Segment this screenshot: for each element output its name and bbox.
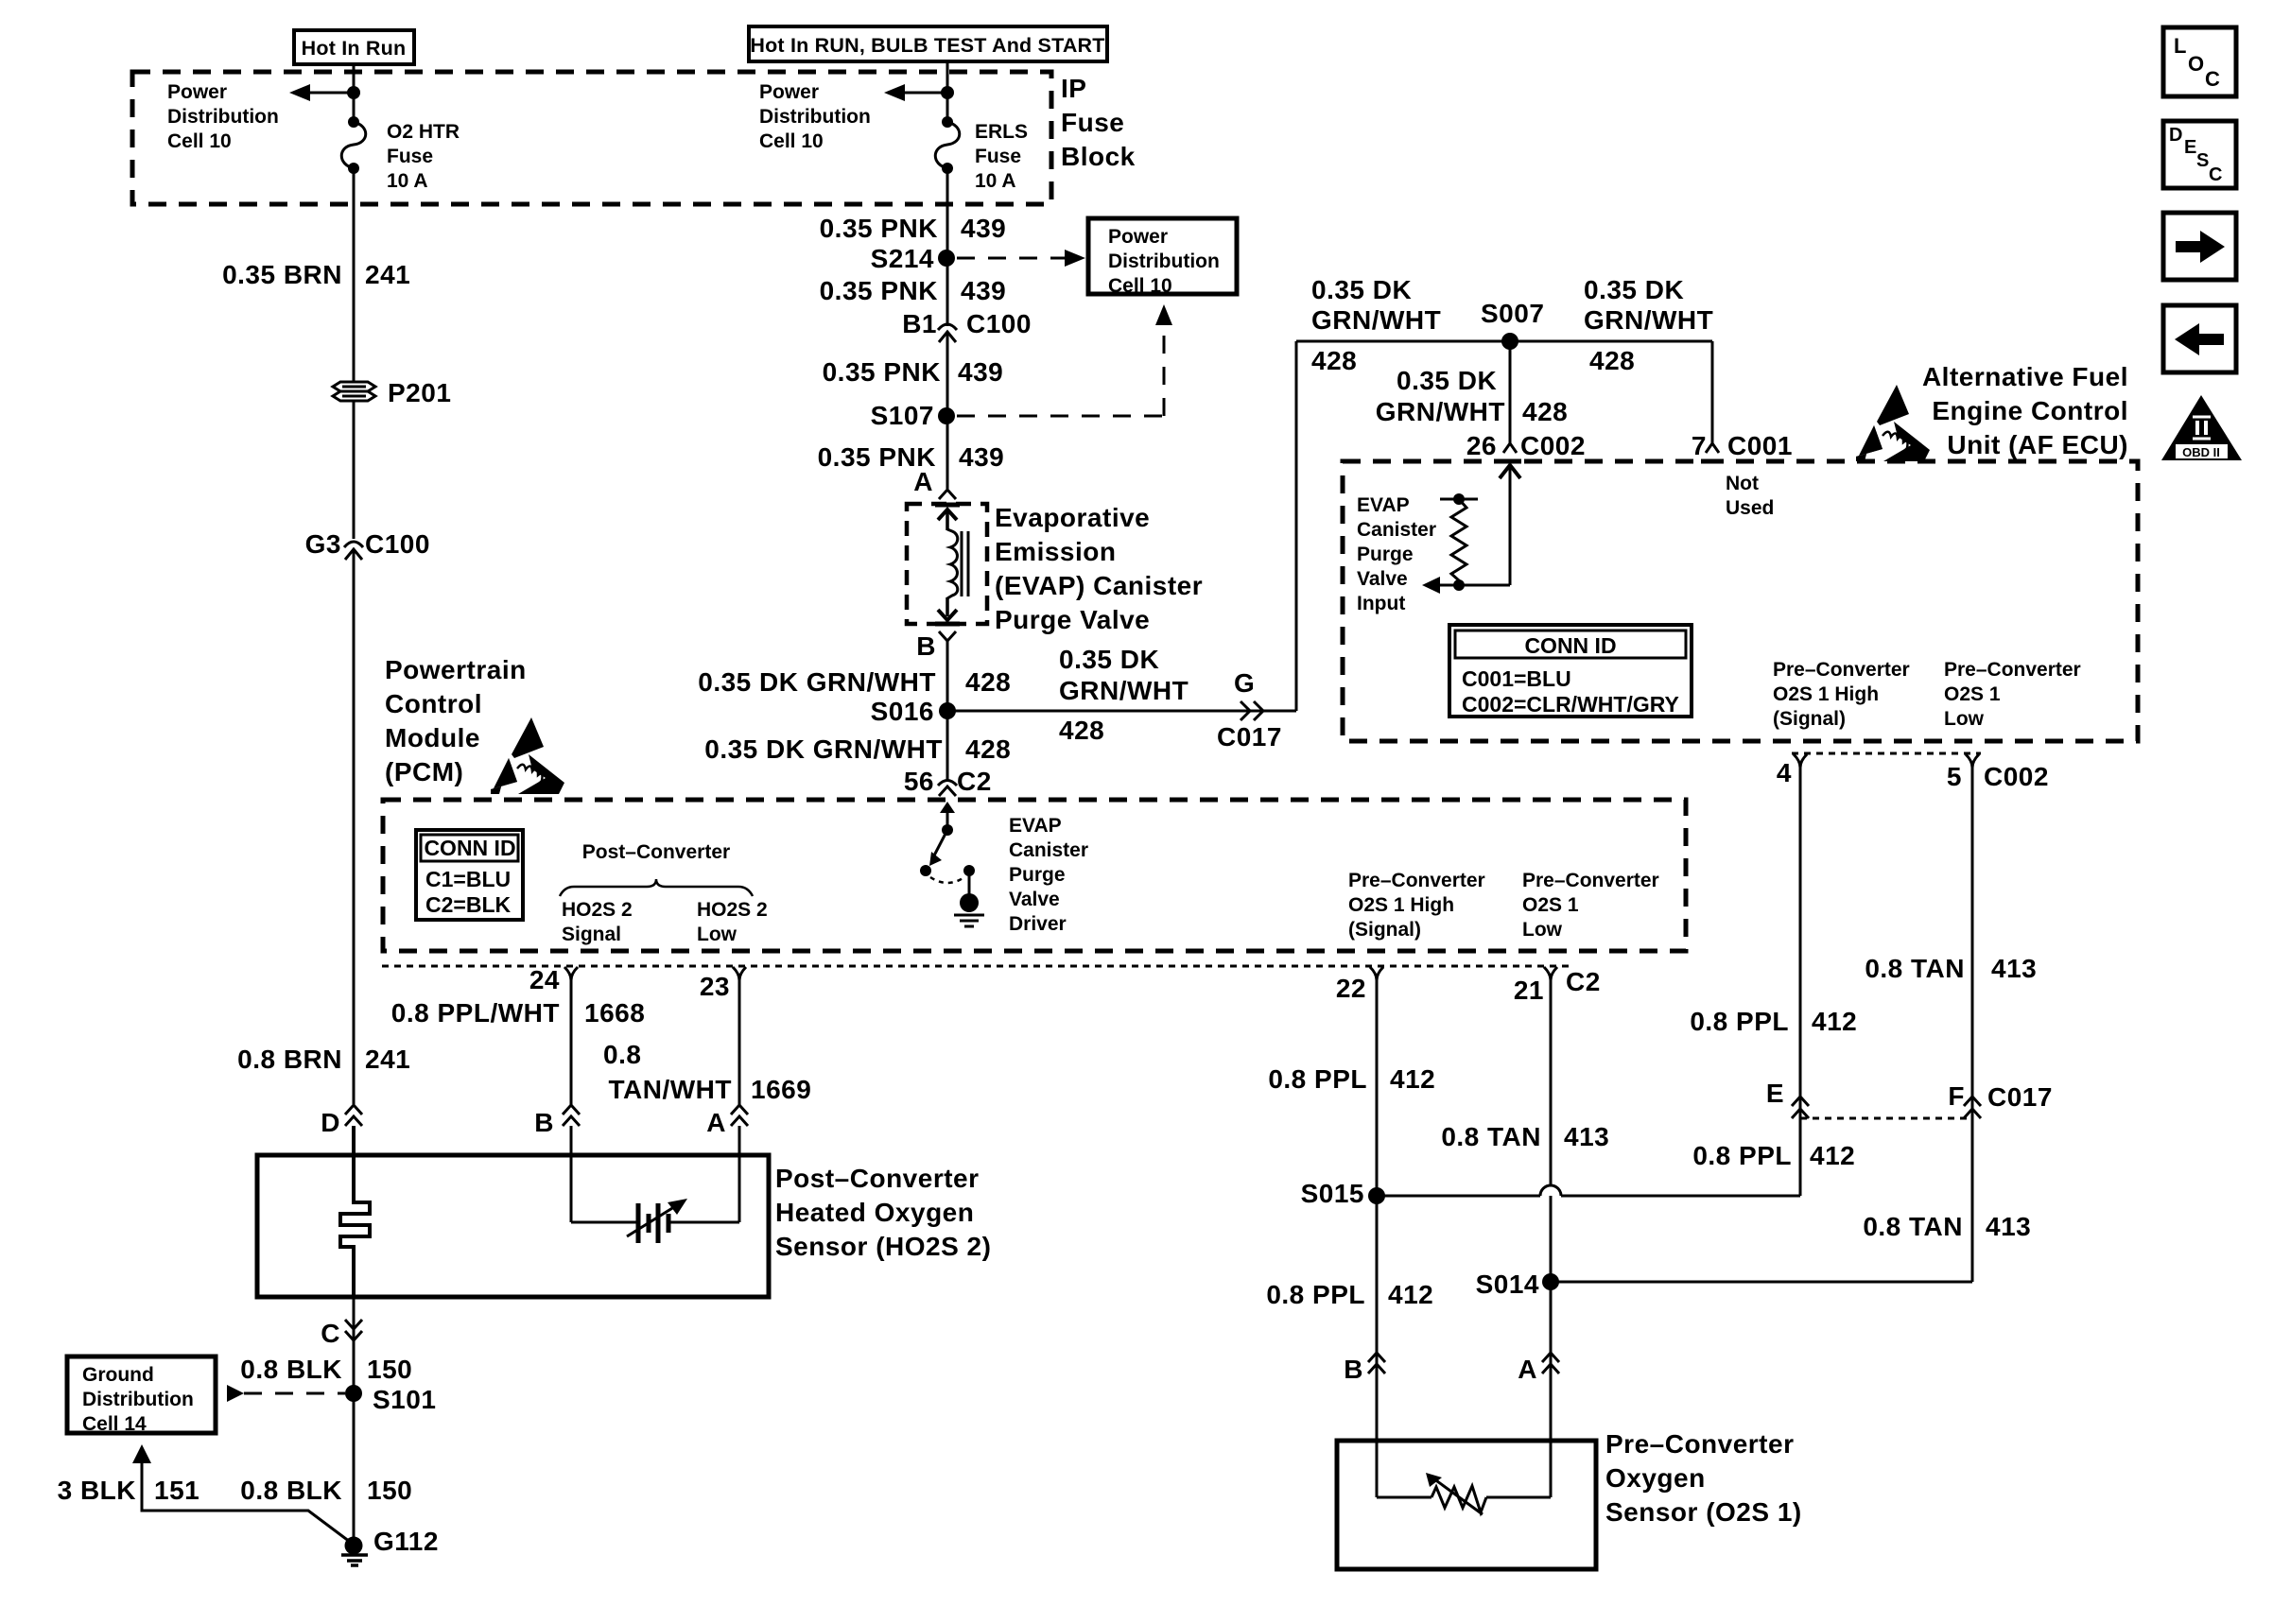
- svg-text:S015: S015: [1301, 1179, 1364, 1208]
- svg-text:S016: S016: [871, 697, 934, 726]
- wire pin 23 to pin A of HO2S 2: [738, 977, 741, 1106]
- text Pre-Converter O2S 1 Low inside PCM: [1522, 870, 1659, 941]
- PCM dashed box: [383, 800, 1686, 951]
- fine dashed connector line C2: [382, 965, 1570, 968]
- text Not Used: [1726, 473, 1774, 519]
- svg-text:412: 412: [1388, 1280, 1433, 1309]
- IP fuse block dashed box: [132, 72, 1051, 204]
- svg-text:Emission: Emission: [995, 537, 1116, 566]
- svg-text:10 A: 10 A: [387, 170, 428, 192]
- svg-text:26: 26: [1466, 431, 1497, 460]
- text 0.35 PNK 439 second: [820, 276, 1007, 305]
- pin E connector chevrons: [1766, 1079, 1809, 1118]
- text Power Distribution Cell 10 (middle): [759, 81, 871, 152]
- wire connector to D pin: [353, 550, 356, 1104]
- svg-text:O2S 1: O2S 1: [1522, 894, 1579, 916]
- wire fuse to P201: [353, 168, 356, 383]
- svg-text:428: 428: [1311, 346, 1357, 375]
- svg-text:Purge Valve: Purge Valve: [995, 605, 1150, 634]
- svg-text:0.35 DK: 0.35 DK: [1311, 275, 1412, 304]
- text 0.8 TAN/WHT 1669: [603, 1040, 811, 1104]
- svg-text:428: 428: [1059, 716, 1104, 745]
- wire ERLS fuse to S214: [946, 168, 949, 261]
- svg-text:5: 5: [1947, 762, 1962, 791]
- svg-text:0.35 DK: 0.35 DK: [1059, 645, 1159, 674]
- EVAP canister purge valve dashed box: [907, 504, 987, 624]
- connector G3 C100 inline: [344, 542, 363, 560]
- svg-text:0.35 PNK: 0.35 PNK: [820, 214, 938, 243]
- box Power Distribution Cell 10 (solid): [1088, 218, 1237, 297]
- node power feed junction 2 with left arrow: [884, 84, 954, 101]
- svg-text:S107: S107: [871, 401, 934, 430]
- icon OBD II triangle: [2161, 395, 2242, 460]
- CONN ID box PCM: [416, 830, 523, 920]
- pin A connector chevrons HO2S 2: [706, 1105, 748, 1137]
- svg-text:412: 412: [1390, 1064, 1435, 1094]
- svg-text:(Signal): (Signal): [1773, 708, 1846, 730]
- text Pre-Converter Oxygen Sensor (O2S 1): [1605, 1429, 1802, 1527]
- svg-text:CONN ID: CONN ID: [424, 836, 515, 860]
- pin D connector chevrons: [321, 1105, 362, 1137]
- svg-text:S101: S101: [373, 1385, 436, 1414]
- svg-text:0.8: 0.8: [603, 1040, 641, 1069]
- svg-text:TAN/WHT: TAN/WHT: [609, 1075, 733, 1104]
- pin A connector of EVAP valve: [913, 467, 956, 499]
- svg-text:428: 428: [1522, 397, 1568, 426]
- text Pre-Converter O2S 1 High (Signal) inside AF ECU: [1773, 659, 1910, 730]
- text 0.35 DK GRN/WHT 428 on S016 run: [1059, 645, 1189, 745]
- box Ground Distribution Cell 14: [67, 1356, 216, 1435]
- text HO2S 2 Low: [697, 899, 768, 945]
- svg-text:0.8 PPL: 0.8 PPL: [1690, 1007, 1789, 1036]
- svg-text:0.8 TAN: 0.8 TAN: [1863, 1212, 1963, 1241]
- pin 21 connector and C2 label: [1514, 967, 1601, 1005]
- svg-text:Evaporative: Evaporative: [995, 503, 1150, 532]
- svg-text:1669: 1669: [751, 1075, 811, 1104]
- svg-text:Pre–Converter: Pre–Converter: [1522, 870, 1659, 891]
- wire S014 down to pin A of O2S 1: [1550, 1282, 1553, 1373]
- svg-text:Fuse: Fuse: [975, 146, 1021, 167]
- wire 151 from Ground Distribution Cell 14 to G112: [132, 1444, 354, 1545]
- pin B connector chevrons O2S 1: [1344, 1353, 1385, 1384]
- svg-text:S214: S214: [871, 244, 934, 273]
- svg-text:CONN ID: CONN ID: [1524, 633, 1616, 658]
- svg-text:B: B: [916, 631, 936, 661]
- svg-text:0.35 DK: 0.35 DK: [1584, 275, 1684, 304]
- svg-text:E: E: [1766, 1079, 1784, 1108]
- svg-text:428: 428: [1589, 346, 1635, 375]
- svg-text:C017: C017: [1987, 1082, 2053, 1112]
- svg-text:Low: Low: [1944, 708, 1985, 730]
- text 0.35 PNK 439 first: [820, 214, 1007, 243]
- connector pin 24: [529, 965, 578, 994]
- svg-text:Not: Not: [1726, 473, 1759, 494]
- node G112 with ground symbol: [341, 1527, 439, 1565]
- svg-text:4: 4: [1777, 758, 1792, 787]
- svg-text:Fuse: Fuse: [387, 146, 433, 167]
- svg-text:0.35 DK GRN/WHT: 0.35 DK GRN/WHT: [698, 667, 936, 697]
- text O2 HTR Fuse 10 A: [387, 121, 460, 192]
- svg-text:GRN/WHT: GRN/WHT: [1584, 305, 1713, 335]
- sensing element O2S 1: [1377, 1373, 1551, 1514]
- text Pre-Converter O2S 1 High (Signal) inside PCM: [1348, 870, 1485, 941]
- text 0.8 BLK 150 lower: [240, 1476, 412, 1505]
- label box Hot In RUN, BULB TEST And START: [749, 26, 1107, 61]
- text Post-Converter Heated Oxygen Sensor (HO2S 2): [775, 1164, 991, 1261]
- svg-text:0.35 PNK: 0.35 PNK: [820, 276, 938, 305]
- svg-text:O: O: [2188, 52, 2204, 76]
- text 0.8 PPL 412 below S015: [1266, 1280, 1433, 1309]
- text G C017: [1217, 668, 1282, 752]
- text 3 BLK 151: [58, 1476, 200, 1505]
- connector pin 4: [1777, 754, 1807, 787]
- node power feed junction with left arrow: [289, 84, 360, 101]
- svg-text:Purge: Purge: [1009, 864, 1066, 886]
- EVAP canister purge valve driver switch: [920, 802, 984, 926]
- text HO2S 2 Signal: [562, 899, 633, 945]
- svg-text:Module: Module: [385, 723, 480, 752]
- svg-text:Hot In RUN, BULB TEST And STAR: Hot In RUN, BULB TEST And START: [750, 34, 1104, 57]
- dashed reference line to S101: [227, 1385, 345, 1402]
- svg-text:Used: Used: [1726, 497, 1774, 519]
- svg-text:Power: Power: [759, 81, 819, 103]
- connector pin 23: [700, 967, 746, 1001]
- svg-text:0.8 PPL: 0.8 PPL: [1266, 1280, 1365, 1309]
- svg-text:241: 241: [365, 1045, 410, 1074]
- svg-text:150: 150: [367, 1476, 412, 1505]
- text 0.8 PPL/WHT 1668: [391, 998, 646, 1028]
- svg-text:C: C: [2209, 164, 2222, 185]
- svg-text:Fuse: Fuse: [1061, 108, 1124, 137]
- fine dashed connector line C017: [1800, 1117, 1972, 1120]
- node S107: [871, 401, 955, 430]
- svg-text:Distribution: Distribution: [1108, 251, 1220, 272]
- svg-text:Power: Power: [167, 81, 227, 103]
- wire pin 22 down to S015: [1376, 977, 1379, 1196]
- svg-text:413: 413: [1991, 954, 2037, 983]
- wire C pin to S101: [353, 1297, 356, 1393]
- pin 22 connector: [1336, 967, 1383, 1003]
- svg-text:Low: Low: [1522, 919, 1563, 941]
- svg-text:Block: Block: [1061, 142, 1136, 171]
- pin C connector chevrons down: [321, 1319, 362, 1348]
- wire S101 to G112: [353, 1393, 356, 1546]
- node S101: [345, 1385, 436, 1414]
- pin B connector chevrons HO2S 2: [534, 1105, 580, 1137]
- svg-text:ERLS: ERLS: [975, 121, 1028, 143]
- wire from title box to ERLS fuse: [946, 61, 949, 122]
- text 0.8 BLK 150 upper: [240, 1355, 412, 1384]
- node S014 and run to F wire: [1476, 1270, 1972, 1299]
- svg-text:0.8 PPL: 0.8 PPL: [1692, 1141, 1792, 1170]
- wire pin 5 down to S014 corner: [1971, 766, 1974, 1282]
- heater element inside HO2S 2: [340, 1126, 370, 1297]
- svg-text:3 BLK: 3 BLK: [58, 1476, 136, 1505]
- svg-text:413: 413: [1564, 1122, 1609, 1151]
- svg-text:Canister: Canister: [1009, 839, 1088, 861]
- svg-text:Heated Oxygen: Heated Oxygen: [775, 1198, 974, 1227]
- svg-text:B: B: [1344, 1355, 1363, 1384]
- svg-text:0.8 BLK: 0.8 BLK: [240, 1476, 342, 1505]
- svg-text:GRN/WHT: GRN/WHT: [1059, 676, 1189, 705]
- svg-text:E: E: [2184, 137, 2196, 158]
- wire pin 24 to pin B of HO2S 2: [570, 977, 573, 1106]
- component box Pre-Converter Oxygen Sensor O2S 1: [1337, 1441, 1596, 1569]
- text 0.35 PNK 439 third: [823, 357, 1004, 387]
- connector pin 56 C2: [904, 767, 992, 796]
- resistor EVAP canister purge valve input: [1422, 493, 1510, 594]
- svg-text:Cell 10: Cell 10: [1108, 275, 1172, 297]
- svg-text:10 A: 10 A: [975, 170, 1016, 192]
- text 0.35 DK GRN/WHT 428 upper: [698, 667, 1011, 697]
- wire P201 to connector G3 C100: [353, 401, 356, 539]
- icon left arrow box: [2163, 305, 2236, 372]
- svg-text:B: B: [534, 1108, 554, 1137]
- svg-text:Driver: Driver: [1009, 913, 1067, 935]
- svg-text:A: A: [1518, 1355, 1537, 1384]
- svg-text:O2S 1 High: O2S 1 High: [1773, 683, 1879, 705]
- svg-text:D: D: [2169, 125, 2182, 146]
- svg-text:C: C: [321, 1319, 340, 1348]
- svg-text:439: 439: [958, 357, 1003, 387]
- grommet P201: [333, 382, 375, 401]
- svg-text:56: 56: [904, 767, 934, 796]
- svg-text:439: 439: [961, 276, 1006, 305]
- ESD symbol PCM: [491, 717, 564, 794]
- connector B1 C100 inline: [902, 309, 1032, 342]
- svg-text:0.35 DK: 0.35 DK: [1397, 366, 1497, 395]
- svg-text:Distribution: Distribution: [759, 106, 871, 128]
- svg-text:Cell 14: Cell 14: [82, 1413, 147, 1435]
- svg-text:G: G: [1234, 668, 1255, 698]
- sensing element HO2S 2: [571, 1126, 739, 1243]
- text 0.8 TAN 413 top right: [1865, 954, 2037, 983]
- svg-text:A: A: [706, 1108, 726, 1137]
- svg-text:7: 7: [1692, 431, 1707, 460]
- svg-text:Low: Low: [697, 924, 737, 945]
- svg-text:Pre–Converter: Pre–Converter: [1348, 870, 1485, 891]
- AF ECU dashed box: [1343, 461, 2138, 741]
- node S214: [871, 244, 955, 273]
- svg-text:(Signal): (Signal): [1348, 919, 1421, 941]
- wire S107 to pin A of EVAP valve: [946, 416, 949, 489]
- text 0.35 DK GRN/WHT 428 top left: [1311, 275, 1441, 375]
- svg-text:GRN/WHT: GRN/WHT: [1311, 305, 1441, 335]
- wire from Hot In Run box to fuse O2 HTR: [353, 62, 356, 122]
- text IP Fuse Block: [1061, 74, 1136, 171]
- svg-text:D: D: [321, 1108, 340, 1137]
- svg-text:IP: IP: [1061, 74, 1086, 103]
- icon right arrow box: [2163, 213, 2236, 280]
- svg-text:Hot In Run: Hot In Run: [302, 37, 407, 60]
- connector 7 C001: [1692, 431, 1793, 461]
- svg-text:Input: Input: [1357, 593, 1405, 614]
- wire pin 4 down to E: [1799, 766, 1802, 1196]
- fuse O2 HTR Fuse 10 A: [341, 116, 366, 174]
- svg-text:C001=BLU: C001=BLU: [1462, 666, 1571, 691]
- svg-text:23: 23: [700, 972, 730, 1001]
- text G3 C100: [305, 529, 430, 559]
- svg-text:O2S 1: O2S 1: [1944, 683, 2001, 705]
- svg-text:22: 22: [1336, 974, 1366, 1003]
- svg-text:P201: P201: [388, 378, 451, 407]
- text ERLS Fuse 10 A: [975, 121, 1028, 192]
- text 0.35 BRN 241: [222, 260, 410, 289]
- svg-text:Power: Power: [1108, 226, 1168, 248]
- svg-text:439: 439: [959, 442, 1004, 472]
- component box Post-Converter Heated Oxygen Sensor HO2S 2: [257, 1155, 769, 1297]
- svg-text:21: 21: [1514, 976, 1544, 1005]
- wire corner up to top run: [1295, 341, 1298, 711]
- text Power Distribution Cell 10 (left): [167, 81, 279, 152]
- wire S015 down to pin B of O2S 1: [1376, 1196, 1379, 1373]
- svg-text:C001: C001: [1727, 431, 1793, 460]
- node S015 and run to E wire: [1301, 1179, 1800, 1208]
- svg-text:Unit (AF ECU): Unit (AF ECU): [1947, 430, 2128, 459]
- svg-text:Purge: Purge: [1357, 544, 1414, 565]
- svg-text:B1: B1: [902, 309, 937, 338]
- wire top run DK GRN/WHT 428: [1296, 340, 1712, 343]
- svg-text:C2=BLK: C2=BLK: [425, 892, 511, 917]
- svg-text:EVAP: EVAP: [1357, 494, 1410, 516]
- text 0.8 PPL 412 left: [1268, 1064, 1435, 1094]
- svg-text:Signal: Signal: [562, 924, 621, 945]
- wire pin 21 down to S014 with hop at S015 run: [1550, 977, 1553, 1282]
- svg-text:C2: C2: [957, 767, 992, 796]
- connector pin 5 and C002 label: [1947, 754, 2049, 791]
- wire S214 to connector B1 C100: [946, 258, 949, 326]
- svg-text:G3: G3: [305, 529, 341, 559]
- svg-text:150: 150: [367, 1355, 412, 1384]
- svg-text:O2S 1 High: O2S 1 High: [1348, 894, 1454, 916]
- text 0.8 TAN 413 right of S014: [1863, 1212, 2031, 1241]
- dashed reference arrow S214 to Power Distribution box: [957, 250, 1085, 267]
- svg-text:0.35 BRN: 0.35 BRN: [222, 260, 342, 289]
- svg-text:0.8 PPL/WHT: 0.8 PPL/WHT: [391, 998, 560, 1028]
- text 0.8 BRN 241: [237, 1045, 410, 1074]
- svg-text:Pre–Converter: Pre–Converter: [1773, 659, 1910, 681]
- svg-text:C002: C002: [1984, 762, 2049, 791]
- svg-text:S007: S007: [1481, 299, 1544, 328]
- svg-text:Cell 10: Cell 10: [759, 130, 824, 152]
- svg-text:0.8 TAN: 0.8 TAN: [1441, 1122, 1541, 1151]
- svg-text:C100: C100: [966, 309, 1032, 338]
- label box Hot In Run: [294, 30, 414, 64]
- icon DESC box: [2163, 121, 2236, 188]
- svg-text:241: 241: [365, 260, 410, 289]
- node S007: [1481, 299, 1544, 350]
- svg-text:L: L: [2174, 34, 2186, 58]
- wire S016 to pin 56 C2: [946, 711, 949, 780]
- svg-text:0.8 BRN: 0.8 BRN: [237, 1045, 342, 1074]
- solenoid coil EVAP valve: [935, 505, 968, 624]
- text 0.35 PNK 439 fourth: [818, 442, 1005, 472]
- text EVAP Canister Purge Valve Input: [1357, 494, 1436, 614]
- svg-text:Canister: Canister: [1357, 519, 1436, 541]
- text 0.8 PPL 412 below E: [1692, 1141, 1855, 1170]
- svg-text:0.35 PNK: 0.35 PNK: [823, 357, 941, 387]
- svg-text:Cell 10: Cell 10: [167, 130, 232, 152]
- svg-text:Sensor (O2S 1): Sensor (O2S 1): [1605, 1497, 1802, 1527]
- text EVAP Canister Purge Valve Driver: [1009, 815, 1088, 935]
- svg-text:Oxygen: Oxygen: [1605, 1463, 1706, 1493]
- icon LOC box: [2163, 27, 2236, 96]
- text 0.8 PPL 412 top: [1690, 1007, 1857, 1036]
- svg-text:Valve: Valve: [1357, 568, 1408, 590]
- svg-text:Alternative Fuel: Alternative Fuel: [1922, 362, 2128, 391]
- text 0.35 DK GRN/WHT 428 middle: [1376, 366, 1568, 426]
- svg-text:C1=BLU: C1=BLU: [425, 867, 511, 891]
- text Alternative Fuel Engine Control Unit (AF ECU): [1922, 362, 2128, 459]
- pin F connector chevrons and C017 label: [1948, 1081, 2053, 1118]
- svg-text:Post–Converter: Post–Converter: [775, 1164, 980, 1193]
- svg-text:151: 151: [154, 1476, 200, 1505]
- fine dashed connector line C002: [1792, 752, 1981, 755]
- svg-text:0.35 DK GRN/WHT: 0.35 DK GRN/WHT: [704, 734, 943, 764]
- text Post-Converter with brace: [560, 841, 753, 896]
- svg-text:0.8 PPL: 0.8 PPL: [1268, 1064, 1367, 1094]
- svg-text:428: 428: [965, 734, 1011, 764]
- svg-text:Post–Converter: Post–Converter: [582, 841, 730, 863]
- svg-text:HO2S 2: HO2S 2: [697, 899, 768, 921]
- svg-text:C100: C100: [365, 529, 430, 559]
- svg-text:S: S: [2196, 150, 2209, 171]
- svg-text:C: C: [2205, 67, 2220, 91]
- svg-text:F: F: [1948, 1081, 1965, 1111]
- svg-text:C017: C017: [1217, 722, 1282, 752]
- svg-text:C002=CLR/WHT/GRY: C002=CLR/WHT/GRY: [1462, 692, 1679, 717]
- text 0.8 TAN 413 left: [1441, 1122, 1609, 1151]
- svg-text:A: A: [913, 467, 933, 496]
- svg-text:HO2S 2: HO2S 2: [562, 899, 633, 921]
- svg-text:413: 413: [1986, 1212, 2031, 1241]
- wire S016 to G C017 and corner up: [947, 701, 1296, 720]
- wire S007 down to connector 26 C002: [1509, 341, 1512, 443]
- svg-text:412: 412: [1810, 1141, 1855, 1170]
- pin B connector of EVAP valve: [916, 631, 956, 661]
- svg-text:Engine Control: Engine Control: [1932, 396, 2128, 425]
- svg-text:Pre–Converter: Pre–Converter: [1605, 1429, 1794, 1459]
- node S016: [871, 697, 956, 726]
- svg-text:Sensor (HO2S 2): Sensor (HO2S 2): [775, 1232, 991, 1261]
- up arrow into connector 26 inside AF ECU: [1500, 464, 1520, 585]
- svg-text:0.8 TAN: 0.8 TAN: [1865, 954, 1965, 983]
- svg-text:C002: C002: [1520, 431, 1586, 460]
- svg-text:412: 412: [1812, 1007, 1857, 1036]
- ESD symbol AF ECU: [1856, 385, 1930, 461]
- connector 26 C002: [1466, 431, 1586, 461]
- wire pin B to S016: [946, 641, 949, 711]
- svg-text:O2 HTR: O2 HTR: [387, 121, 460, 143]
- text 0.35 DK GRN/WHT 428 top right: [1584, 275, 1713, 375]
- wire corner down to connector 7 C001: [1711, 341, 1714, 443]
- text Evaporative Emission (EVAP) Canister Purge Valve: [995, 503, 1203, 634]
- pin A connector chevrons O2S 1: [1518, 1353, 1559, 1384]
- svg-text:C2: C2: [1566, 967, 1601, 996]
- svg-text:(EVAP) Canister: (EVAP) Canister: [995, 571, 1203, 600]
- svg-text:Control: Control: [385, 689, 482, 718]
- svg-text:S014: S014: [1476, 1270, 1539, 1299]
- svg-text:428: 428: [965, 667, 1011, 697]
- svg-text:OBD II: OBD II: [2182, 445, 2220, 459]
- text Powertrain Control Module (PCM): [385, 655, 527, 786]
- svg-text:Valve: Valve: [1009, 889, 1060, 910]
- svg-text:Powertrain: Powertrain: [385, 655, 527, 684]
- text 0.35 DK GRN/WHT 428 lower: [704, 734, 1011, 764]
- svg-text:Ground: Ground: [82, 1364, 154, 1386]
- wire connector B1 to S107: [946, 333, 949, 415]
- svg-text:EVAP: EVAP: [1009, 815, 1062, 837]
